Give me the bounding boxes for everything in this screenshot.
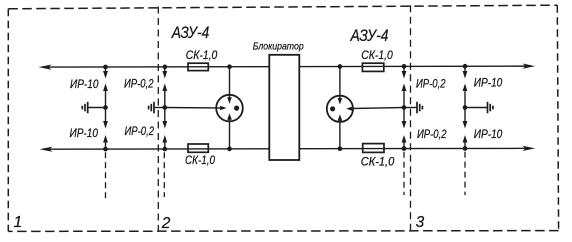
svg-text:1: 1 <box>14 214 23 231</box>
svg-text:АЗУ-4: АЗУ-4 <box>171 24 209 42</box>
svg-text:ИР-10: ИР-10 <box>70 128 99 140</box>
svg-text:2: 2 <box>161 215 171 232</box>
svg-text:ИР-10: ИР-10 <box>474 129 503 141</box>
svg-text:СК-1,0: СК-1,0 <box>186 50 218 62</box>
svg-text:3: 3 <box>416 214 425 231</box>
svg-text:ИР-10: ИР-10 <box>474 78 503 90</box>
svg-text:Блокиратор: Блокиратор <box>253 42 304 53</box>
svg-text:ИР-0,2: ИР-0,2 <box>124 78 154 90</box>
svg-text:СК-1,0: СК-1,0 <box>361 50 393 62</box>
svg-text:ИР-0,2: ИР-0,2 <box>417 129 447 141</box>
svg-text:ИР-0,2: ИР-0,2 <box>125 126 155 138</box>
svg-text:ИР-10: ИР-10 <box>70 79 99 91</box>
svg-text:АЗУ-4: АЗУ-4 <box>350 27 389 45</box>
svg-text:СК-1,0: СК-1,0 <box>185 155 216 167</box>
svg-text:СК-1,0: СК-1,0 <box>361 157 395 169</box>
svg-text:ИР-0,2: ИР-0,2 <box>416 78 446 90</box>
